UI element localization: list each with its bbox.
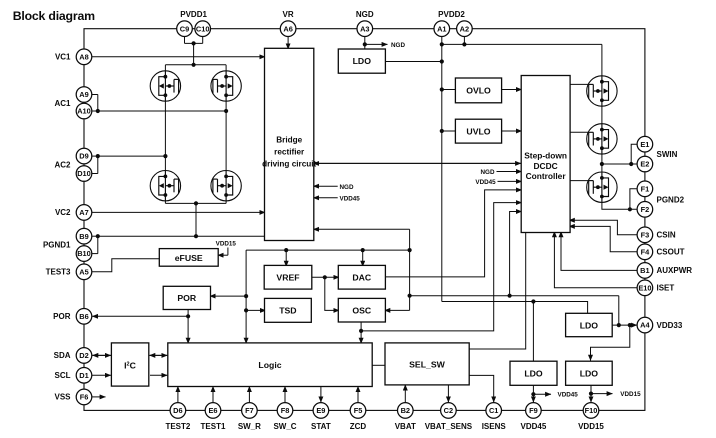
svg-text:TSD: TSD <box>279 306 296 316</box>
wire: I2C to Logic bus <box>149 355 167 375</box>
wire: DAC output to controller <box>385 190 521 277</box>
wire: VDD33 riser feeding bridge, rail and OSC <box>313 229 412 310</box>
wire: VC1 from A8 into bridge driver <box>92 56 265 58</box>
block: Bridge rectifier driving circuit <box>262 48 316 240</box>
pin E6 (TEST1) <box>201 403 226 431</box>
svg-text:F9: F9 <box>529 406 538 415</box>
wire: OSC clock to Logic and controller <box>359 203 522 344</box>
svg-text:A4: A4 <box>640 321 650 330</box>
pin D2 (SDA) <box>54 348 92 364</box>
svg-text:NGD: NGD <box>340 184 354 191</box>
svg-text:F2: F2 <box>641 205 650 214</box>
block: I2C interface <box>111 343 148 386</box>
svg-text:Controller: Controller <box>526 171 567 181</box>
svg-text:VDD45: VDD45 <box>558 392 579 399</box>
transistor Q5 step-down top switch <box>587 76 617 106</box>
transistor Q3 bridge low-side left <box>150 171 180 201</box>
svg-text:A9: A9 <box>79 90 88 99</box>
svg-text:LDO: LDO <box>353 56 372 66</box>
svg-text:A7: A7 <box>79 208 88 217</box>
block: Logic <box>168 343 372 387</box>
pin D1 (SCL) <box>55 368 92 384</box>
svg-text:TEST3: TEST3 <box>46 268 71 277</box>
wire: VSS F6 stub <box>92 396 106 398</box>
svg-text:C9: C9 <box>180 24 189 33</box>
pin D6 (TEST2) <box>165 403 190 431</box>
wire: OVLO input <box>442 89 456 91</box>
wire: POR output to B6 and Logic <box>92 310 190 344</box>
svg-text:PVDD1: PVDD1 <box>180 10 207 19</box>
svg-text:LDO: LDO <box>580 321 599 331</box>
wire: STAT from Logic to E9 <box>320 387 322 403</box>
svg-text:SDA: SDA <box>54 351 71 360</box>
pin F4 (CSOUT) <box>637 244 685 260</box>
svg-text:A10: A10 <box>77 107 91 116</box>
wire: TEST1 E6 into Logic <box>212 386 214 402</box>
svg-text:VDD15: VDD15 <box>216 241 237 248</box>
svg-text:B10: B10 <box>77 249 91 258</box>
pin F6 (VSS) <box>54 389 91 405</box>
svg-text:F8: F8 <box>281 406 290 415</box>
transistor Q7 step-down bottom switch <box>587 172 617 202</box>
wire: VDD45 stub into controller <box>475 179 521 186</box>
svg-text:VSS: VSS <box>54 393 71 402</box>
svg-text:Logic: Logic <box>258 360 281 370</box>
svg-text:A8: A8 <box>79 52 88 61</box>
pin A5 (TEST3) <box>46 264 92 280</box>
wire: A2 drop to PVDD2 line <box>462 36 466 46</box>
pin E1 <box>637 136 653 152</box>
svg-text:VDD15: VDD15 <box>620 391 641 398</box>
transistor Q6 step-down middle switch <box>587 124 617 154</box>
pin C9 <box>177 21 193 37</box>
svg-text:C1: C1 <box>489 406 498 415</box>
pin F5 (ZCD) <box>350 403 367 431</box>
svg-text:B1: B1 <box>640 266 649 275</box>
pin A8 (VC1) <box>55 49 92 65</box>
svg-text:AUXPWR: AUXPWR <box>657 266 693 275</box>
svg-text:PGND2: PGND2 <box>657 196 685 205</box>
svg-text:Step-down: Step-down <box>524 151 567 161</box>
wire: PVDD2 line to top of switch chain <box>442 44 602 75</box>
wire: LDO(A3) output to PVDD2 vertical <box>385 59 444 63</box>
block: VREF <box>264 265 312 289</box>
svg-text:E2: E2 <box>640 160 649 169</box>
pin A9 <box>76 87 92 103</box>
wire: ZCD F5 into Logic <box>357 386 359 402</box>
wire: NGD net from A3 to LDO and NGD stub label <box>363 36 406 49</box>
wire: CSOUT F4 to controller <box>569 226 637 251</box>
pin A7 (VC2) <box>55 205 92 221</box>
pin E2 (SWIN) <box>637 150 678 172</box>
pin C2 (VBAT_SENS) <box>425 403 473 431</box>
svg-text:NGD: NGD <box>481 169 495 176</box>
svg-text:F7: F7 <box>245 406 254 415</box>
svg-text:D10: D10 <box>77 169 91 178</box>
wire: package pin ring bus <box>84 29 645 411</box>
wire: VDD45 LDO output to F9 with VDD45 stub <box>531 385 578 402</box>
svg-text:VDD45: VDD45 <box>475 179 496 186</box>
wire: TEST2 D6 into Logic <box>177 386 179 402</box>
svg-text:F4: F4 <box>641 247 651 256</box>
svg-text:AC1: AC1 <box>54 99 71 108</box>
svg-text:VREF: VREF <box>276 273 299 283</box>
svg-text:VBAT: VBAT <box>395 422 416 431</box>
wire: Logic to SEL_SW <box>372 364 385 366</box>
wire: rail left leg to POR, TSD and Logic <box>210 250 266 344</box>
wire: AUXPWR B1 to controller <box>561 231 637 270</box>
block: UVLO <box>455 119 501 143</box>
wire: controller to SEL_SW <box>469 233 526 350</box>
pin D9 <box>76 148 92 164</box>
pin E9 (STAT) <box>311 403 331 431</box>
wire: PGND2 F1 bracket <box>630 189 637 210</box>
svg-text:VDD45: VDD45 <box>521 422 547 431</box>
wire: bridge bottom rail to PGND1 <box>165 201 226 238</box>
transistor Q1 bridge high-side left <box>150 71 180 101</box>
wire: VC2 from A7 into bridge driver <box>92 211 265 213</box>
wire: bridge top rail PVDD1 <box>165 64 226 66</box>
wire: SW_R F7 into Logic <box>248 386 250 402</box>
svg-text:DCDC: DCDC <box>533 161 557 171</box>
wire: VDD45 LDO input <box>532 302 534 362</box>
block: LDO VDD33 <box>566 313 613 336</box>
svg-text:OVLO: OVLO <box>466 86 491 96</box>
svg-text:SCL: SCL <box>55 371 71 380</box>
pin F7 (SW_R) <box>238 403 261 431</box>
svg-text:LDO: LDO <box>580 369 599 379</box>
block: OVLO <box>455 78 501 103</box>
svg-text:rectifier: rectifier <box>274 148 305 157</box>
svg-text:VDD33: VDD33 <box>657 321 683 330</box>
block: TSD <box>265 298 312 322</box>
svg-text:F10: F10 <box>585 406 598 415</box>
wire: NGD stub into bridge driver <box>313 184 354 191</box>
wire: UVLO input <box>442 130 456 132</box>
wire: TEST3 A5 to eFUSE <box>92 259 160 272</box>
pin B10 (PGND1) <box>43 241 92 262</box>
svg-text:TEST1: TEST1 <box>201 422 226 431</box>
pin C1 (ISENS) <box>482 403 507 431</box>
svg-text:VDD15: VDD15 <box>578 422 604 431</box>
pin A1 <box>434 21 450 37</box>
svg-text:F3: F3 <box>641 230 650 239</box>
wire: ISENS from SEL_SW to C1 <box>469 375 494 402</box>
svg-text:CSOUT: CSOUT <box>657 248 685 257</box>
wire: left half-bridge drain stems <box>164 65 166 204</box>
pin F2 (PGND2) <box>637 196 685 218</box>
svg-text:Block diagram: Block diagram <box>13 9 95 23</box>
svg-text:SW_R: SW_R <box>238 422 261 431</box>
wire: VDD33 LDO to VDD15 LDO <box>591 325 630 361</box>
svg-text:ISET: ISET <box>657 284 675 293</box>
pin B1 (AUXPWR) <box>637 263 692 279</box>
svg-text:eFUSE: eFUSE <box>175 253 203 263</box>
svg-text:SWIN: SWIN <box>657 150 678 159</box>
svg-text:D1: D1 <box>79 371 88 380</box>
pin B9 <box>76 228 92 244</box>
wire: controller to bridge driver line <box>313 162 521 164</box>
svg-text:C2: C2 <box>444 406 453 415</box>
wire: VDD33 LDO output to A4 <box>612 323 637 327</box>
wire: VREF output to DAC and OSC <box>312 275 339 310</box>
net label PVDD2 <box>438 10 465 19</box>
pin A6 <box>280 21 296 37</box>
svg-text:F5: F5 <box>354 406 363 415</box>
pin A10 (AC1) <box>54 99 91 119</box>
wire: analog supply rail over VREF/DAC <box>246 248 410 267</box>
pin A3 <box>357 21 373 37</box>
svg-text:I2C: I2C <box>124 361 136 371</box>
pin C10 <box>195 21 211 37</box>
wire: CSIN F3 to controller <box>569 220 637 235</box>
wire: VDD15 LDO output to F10 with VDD15 stub <box>589 385 641 402</box>
wire: PVDD2 vertical from A1 down and line B to LDOs <box>440 36 588 313</box>
svg-text:DAC: DAC <box>352 273 372 283</box>
wire: gate drives from controller to switch chain <box>570 84 589 180</box>
wire: PVDD1 net from C9/C10 down to bridge top rail <box>185 36 203 67</box>
svg-text:SEL_SW: SEL_SW <box>409 359 446 369</box>
svg-text:A1: A1 <box>437 24 446 33</box>
pin F8 (SW_C) <box>273 403 296 431</box>
wire: right half-bridge drain stems <box>225 65 227 204</box>
svg-text:SW_C: SW_C <box>273 422 296 431</box>
block: eFUSE <box>159 249 218 267</box>
svg-text:OSC: OSC <box>352 306 372 316</box>
net label NGD top <box>356 10 374 19</box>
block: LDO (NGD supply) <box>338 49 385 73</box>
svg-text:A5: A5 <box>79 267 88 276</box>
wire: VBAT B2 into SEL_SW <box>404 385 406 403</box>
block: DAC <box>338 265 385 289</box>
svg-text:D9: D9 <box>79 152 88 161</box>
svg-text:VC2: VC2 <box>55 208 71 217</box>
wire: VR from A6 into bridge driver top <box>287 36 289 49</box>
svg-text:PVDD2: PVDD2 <box>438 10 465 19</box>
transistor Q4 bridge low-side right <box>211 171 241 201</box>
block: POR <box>163 286 210 309</box>
transistor Q2 bridge high-side right <box>211 71 241 101</box>
block: OSC <box>338 298 385 322</box>
svg-text:VBAT_SENS: VBAT_SENS <box>425 422 473 431</box>
svg-text:NGD: NGD <box>391 42 405 49</box>
svg-text:VDD45: VDD45 <box>340 196 361 203</box>
svg-text:POR: POR <box>53 312 71 321</box>
block: Step-down DCDC Controller <box>521 76 570 233</box>
block: LDO VDD45 <box>510 361 557 385</box>
net label PVDD1 <box>180 10 207 19</box>
block: SEL_SW <box>385 343 469 385</box>
pin D10 (AC2) <box>54 161 91 182</box>
svg-text:F1: F1 <box>641 184 650 193</box>
svg-text:driving circuit: driving circuit <box>262 160 316 169</box>
svg-text:STAT: STAT <box>311 422 331 431</box>
pin F10 (VDD15) <box>578 403 604 431</box>
svg-text:F6: F6 <box>80 393 89 402</box>
svg-text:TEST2: TEST2 <box>165 422 190 431</box>
svg-text:E10: E10 <box>638 283 651 292</box>
svg-text:C10: C10 <box>196 24 210 33</box>
svg-text:E9: E9 <box>316 406 325 415</box>
wire: UVLO to controller <box>502 130 522 132</box>
svg-text:NGD: NGD <box>356 10 374 19</box>
svg-text:E1: E1 <box>640 140 649 149</box>
svg-text:VR: VR <box>283 10 294 19</box>
svg-text:A3: A3 <box>360 24 369 33</box>
pin F1 <box>637 181 653 197</box>
wire: VDD15 stub into eFUSE <box>216 241 237 256</box>
svg-text:UVLO: UVLO <box>466 126 490 136</box>
svg-text:B9: B9 <box>79 232 88 241</box>
svg-text:POR: POR <box>177 293 197 303</box>
wire: NGD stub into controller <box>481 169 522 176</box>
wire: AC2 from D9/D10 to left half-bridge midpoint <box>92 154 168 174</box>
wire: SW_C F8 into Logic <box>284 386 286 402</box>
svg-text:D2: D2 <box>79 351 88 360</box>
svg-text:D6: D6 <box>173 406 182 415</box>
svg-text:VC1: VC1 <box>55 53 71 62</box>
pin E10 (ISET) <box>637 280 674 296</box>
svg-text:ISENS: ISENS <box>482 422 507 431</box>
wire: ISET E10 to controller <box>554 231 637 287</box>
svg-text:E6: E6 <box>208 406 217 415</box>
wire: AC1 from A9/A10 to right half-bridge midpoint <box>92 95 228 114</box>
pin B2 (VBAT) <box>395 403 416 431</box>
block: LDO VDD15 <box>566 361 613 385</box>
svg-text:LDO: LDO <box>524 369 543 379</box>
wire: line A VDD33 to A4 and taps <box>410 212 621 328</box>
pin A4 (VDD33) <box>637 317 683 333</box>
svg-text:B6: B6 <box>79 312 88 321</box>
svg-text:A2: A2 <box>460 24 469 33</box>
net label VR <box>283 10 294 19</box>
pin A2 <box>457 21 473 37</box>
svg-text:ZCD: ZCD <box>350 422 367 431</box>
svg-text:Bridge: Bridge <box>276 135 302 144</box>
svg-text:AC2: AC2 <box>54 161 71 170</box>
wire: SWIN node to E1/E2 <box>600 144 637 166</box>
pin B6 (POR) <box>53 309 92 325</box>
wire: PGND1 from B9/B10 to bridge driver <box>92 234 265 254</box>
wire: OVLO to controller <box>502 89 522 91</box>
wire: SCL D1 to I2C <box>92 374 111 376</box>
svg-text:CSIN: CSIN <box>657 231 676 240</box>
pin F9 (VDD45) <box>521 403 547 431</box>
pin F3 (CSIN) <box>637 227 676 243</box>
svg-text:A6: A6 <box>283 24 292 33</box>
title: Block diagram <box>13 9 95 23</box>
wire: switch chain links <box>602 106 637 211</box>
svg-text:B2: B2 <box>401 406 410 415</box>
wire: SDA D2 to I2C <box>92 354 111 356</box>
wire: VDD45 stub into bridge driver <box>313 196 360 203</box>
wire: VBAT_SENS from SEL_SW to C2 <box>447 385 449 402</box>
svg-text:PGND1: PGND1 <box>43 241 71 250</box>
